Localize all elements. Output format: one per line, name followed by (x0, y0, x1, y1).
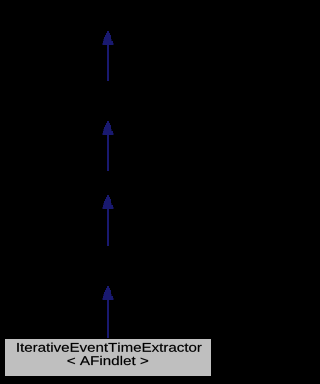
inheritance arrow 4 (bottom, from IterativeEventTimeExtractor node, midnightblue) (103, 286, 114, 338)
node label line 1: IterativeEventTimeExtractor (17, 343, 201, 352)
node label line 2: < AFindlet > (68, 356, 149, 365)
inheritance arrow 3 (midnightblue) (103, 195, 114, 246)
inheritance arrow 1 (topmost, generalization, midnightblue) (103, 31, 114, 81)
node box IterativeEventTimeExtractor< AFindlet > (current class, grey fill, black border) (5, 339, 212, 377)
inheritance arrow 2 (midnightblue) (103, 121, 114, 171)
